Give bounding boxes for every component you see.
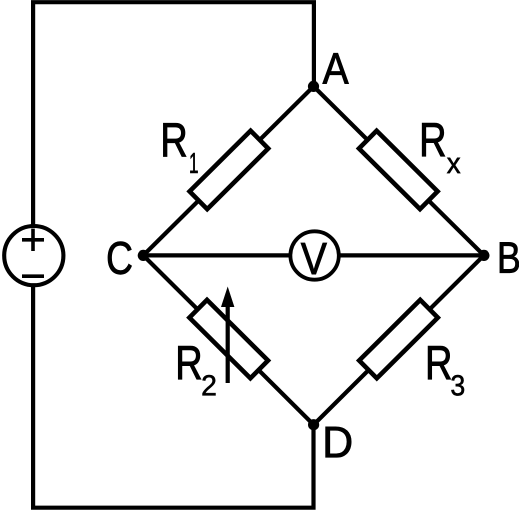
wire: outer loop top (source + terminal to node A)	[33, 2, 314, 226]
node C junction dot	[138, 250, 149, 261]
resistor R3 body	[359, 300, 438, 378]
voltmeter V circle	[290, 231, 338, 279]
label R3	[428, 346, 464, 395]
resistor R1 body	[190, 131, 269, 209]
label R2	[178, 346, 215, 395]
voltage source + sign	[22, 229, 44, 251]
wire: arm A-B	[314, 86, 484, 255]
node A label	[323, 53, 349, 83]
resistor Rx body	[359, 131, 438, 209]
node D junction dot	[308, 419, 319, 430]
wire: outer loop bottom (source - terminal to node D)	[33, 285, 313, 507]
label Rx	[422, 123, 460, 173]
wire: galvanometer branch C-B	[143, 253, 484, 257]
variable resistor R2 arrow	[221, 287, 234, 384]
wire: arm A-C	[143, 86, 313, 255]
wire: arm C-D	[143, 255, 313, 424]
voltmeter V label	[301, 243, 327, 274]
variable resistor R2 body	[189, 300, 268, 378]
label R1	[163, 123, 197, 173]
wire: arm D-B	[314, 255, 484, 424]
node B junction dot	[478, 250, 489, 261]
voltage source (battery) circle	[4, 226, 63, 285]
node D label	[326, 427, 351, 457]
node A junction dot	[308, 81, 319, 92]
node B label	[500, 242, 519, 272]
voltage source - sign	[22, 274, 44, 278]
node C label	[108, 242, 132, 275]
